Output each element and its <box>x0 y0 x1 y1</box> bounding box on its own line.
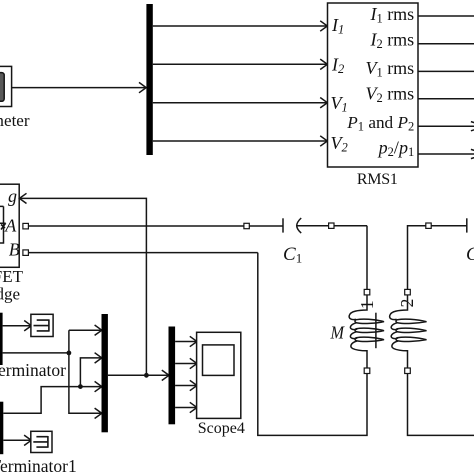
terminator block Terminator1 <box>31 431 52 452</box>
connection square on wire A <box>244 223 249 228</box>
arrowhead mux in3 <box>95 381 102 391</box>
port square winding1 bottom <box>364 368 370 374</box>
wire to I2 <box>153 59 328 69</box>
terminator block Terminator <box>31 314 53 336</box>
wire gate signal <box>3 352 69 354</box>
mutual inductance winding 1 (left coil) <box>349 295 384 368</box>
port square winding2 top <box>405 289 411 295</box>
arrowhead mux in2 <box>95 353 102 363</box>
scope block Scope4 <box>197 332 241 418</box>
wire to Terminator <box>3 321 32 331</box>
wire demux to scope 1 <box>175 336 197 346</box>
svg-text:A: A <box>4 216 17 236</box>
port square winding1 top <box>364 289 370 295</box>
capacitor C1 left plate <box>282 218 284 232</box>
wire I2 rms out <box>418 43 474 45</box>
junction in2 branch <box>78 384 83 389</box>
port square winding2 bottom <box>405 368 411 374</box>
demux bar (bus selector) <box>146 4 152 155</box>
wire winding2 bottom out right <box>408 374 474 436</box>
svg-text:Terminator1: Terminator1 <box>0 456 77 474</box>
wire to V2 <box>153 136 328 146</box>
wire to I1 <box>153 21 328 31</box>
wire p2/p1 out <box>418 149 474 158</box>
mux bar <box>102 314 108 432</box>
wire winding2 top to C2 <box>408 226 467 290</box>
svg-text:M: M <box>330 322 345 342</box>
connection square after C1 <box>329 223 334 228</box>
junction gate <box>67 351 72 356</box>
RMS measurement block U RMS1 <box>328 3 419 167</box>
wire g feedback <box>19 198 146 375</box>
wire source2 to mux in3 <box>3 387 101 414</box>
wire branch to mux in1 <box>69 330 101 413</box>
port square A <box>23 223 29 229</box>
wire I1 rms out <box>418 15 474 17</box>
svg-text:V2 rms: V2 rms <box>365 83 414 105</box>
demux bar for scope <box>169 327 176 425</box>
multimeter U-meter block <box>0 66 12 106</box>
svg-text:V1 rms: V1 rms <box>365 58 414 80</box>
svg-text:MOSFET: MOSFET <box>0 267 24 286</box>
junction g tap <box>144 373 149 378</box>
capacitor C1 curved plate with arrowhead <box>297 218 302 233</box>
wire down to winding 1 <box>366 226 368 290</box>
pulse source bar (clipped block) <box>0 313 3 365</box>
svg-text:Multimeter: Multimeter <box>0 111 30 130</box>
arrowhead mux in1 <box>95 325 102 335</box>
wire V2 rms out <box>418 98 474 100</box>
svg-text:I2 rms: I2 rms <box>369 30 414 52</box>
wire to V1 <box>153 98 328 108</box>
svg-text:B: B <box>9 240 20 260</box>
pulse source bar 2 (clipped block) <box>0 402 3 455</box>
svg-text:Scope4: Scope4 <box>198 420 245 437</box>
svg-text:C2: C2 <box>466 244 474 266</box>
wire source2 to Terminator1 <box>3 435 31 445</box>
svg-text:g: g <box>8 186 17 206</box>
capacitor C2 left plate (clipped) <box>466 218 468 232</box>
wire P1 and P2 out <box>418 122 474 131</box>
wire A to C1 <box>28 225 283 227</box>
wire V1 rms out <box>418 70 474 72</box>
wire demux to scope 4 <box>175 402 197 412</box>
arrowhead mux in4 <box>95 408 102 418</box>
label MOSFET bridge (clipped) <box>0 267 24 304</box>
port square B <box>23 250 29 256</box>
wire mux to demux <box>108 370 169 380</box>
transformer core <box>375 313 377 349</box>
svg-text:RMS1: RMS1 <box>357 171 398 188</box>
g input arrowhead <box>19 193 26 203</box>
wire winding1 bottom loop <box>258 253 367 436</box>
wire multimeter to demux bar <box>12 82 147 92</box>
wire demux to scope 3 <box>175 380 197 390</box>
svg-text:I1 rms: I1 rms <box>369 4 414 26</box>
MOSFET bridge block <box>0 184 19 267</box>
svg-text:Terminator: Terminator <box>0 360 66 380</box>
wire demux to scope 2 <box>175 358 197 368</box>
wire C1 to transformer <box>297 225 367 227</box>
mutual inductance winding 2 (right coil) <box>390 295 427 368</box>
svg-text:P1 and P2: P1 and P2 <box>346 113 414 133</box>
wire B <box>28 252 257 254</box>
wire branch to mux in2 <box>80 358 101 387</box>
connection square before C2 <box>426 223 431 228</box>
svg-text:bridge: bridge <box>0 285 20 304</box>
